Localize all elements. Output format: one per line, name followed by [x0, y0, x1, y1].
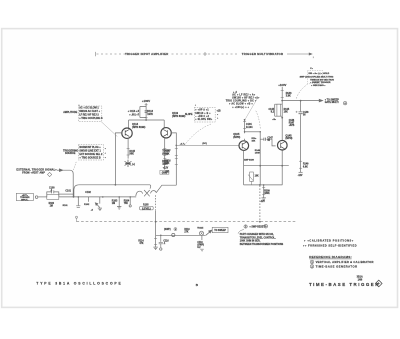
wire: down to input line: [63, 170, 73, 197]
svg-text:INPUT+: INPUT+: [21, 199, 29, 201]
wire: base line to Q105: [175, 145, 239, 147]
capacitor C100 bypass: [47, 190, 59, 197]
svg-text:100K OHM IN SER.: 100K OHM IN SER.: [240, 241, 261, 243]
svg-text:(NPN 8199): (NPN 8199): [132, 126, 145, 129]
svg-text:REFERENCE DIAGRAMS:: REFERENCE DIAGRAMS:: [309, 255, 352, 259]
component: star symbol under Q114: [125, 160, 132, 167]
svg-text:C147: C147: [267, 136, 273, 139]
wire: corner up to rail: [74, 185, 79, 197]
svg-text:(+): (+): [132, 164, 135, 166]
capacitor C115: [159, 235, 163, 247]
wire: Q119 right lead + right rail: [171, 133, 177, 185]
svg-text:(NPN): (NPN): [233, 136, 240, 139]
connector circle on rail: [172, 233, 175, 236]
switch table: triggering source: [78, 145, 106, 160]
svg-text:TRIGGER MULTIVIBRATOR: TRIGGER MULTIVIBRATOR: [242, 52, 283, 56]
transistor Q145: [278, 140, 288, 150]
wire: collector cross link: [245, 131, 261, 133]
wire: dashed drop to chassis: [259, 185, 261, 221]
svg-text:+ TRIG COUPLING S: + TRIG COUPLING S: [79, 117, 103, 120]
svg-text:-12V: -12V: [298, 175, 303, 177]
svg-text:+ +100(+) + +: + +100(+) + +: [232, 107, 249, 109]
svg-text:(SWP): (SWP): [164, 229, 171, 231]
svg-text:R114: R114: [138, 240, 144, 243]
svg-text:++ FURNISHED SELF-IDENTIFIED: ++ FURNISHED SELF-IDENTIFIED: [303, 244, 357, 247]
svg-text:TIME-BASE GENERATOR: TIME-BASE GENERATOR: [316, 265, 358, 269]
base network C147: [260, 139, 275, 146]
svg-text:10K: 10K: [165, 153, 170, 155]
svg-text:C148: C148: [303, 111, 309, 114]
svg-text:+ C113 +.5: + C113 +.5: [128, 111, 140, 113]
resistor R100 box: [47, 194, 59, 199]
node: arrow stub: [129, 197, 131, 205]
svg-text:+67B: +67B: [289, 125, 295, 127]
svg-text:R109: R109: [264, 190, 270, 192]
box: TO SWEEP: [212, 227, 228, 232]
svg-text:TRANSISTOR LEVEL CONTROL,: TRANSISTOR LEVEL CONTROL,: [240, 236, 276, 239]
svg-text:R104: R104: [124, 199, 130, 202]
wire: pointer to C104 node: [245, 98, 257, 119]
svg-text:+100V: +100V: [142, 99, 150, 103]
svg-text:75K: 75K: [124, 203, 129, 205]
svg-text:SOURCE: SOURCE: [65, 152, 76, 155]
wire: Q114 cathode drop: [127, 138, 129, 159]
wire: C101 upper parallel: [59, 193, 73, 195]
svg-text:+ GEN DIAG +: + GEN DIAG +: [311, 84, 326, 87]
svg-text:+ TRIG SOURCE B: + TRIG SOURCE B: [79, 157, 100, 160]
svg-text:TRIGGER INPUT AMPLIFIER: TRIGGER INPUT AMPLIFIER: [125, 52, 168, 56]
wire: header dash left: [97, 53, 127, 55]
node: header mid cross: [203, 52, 207, 56]
transistor Q114: [122, 128, 132, 138]
svg-text:TIME-BASE TRIGGER: TIME-BASE TRIGGER: [309, 282, 380, 287]
svg-text:(DC): (DC): [202, 143, 207, 145]
ground: under x155.6: [153, 235, 157, 249]
svg-text:56K: 56K: [129, 153, 134, 156]
wire: dashed coupling linkage: [256, 111, 260, 129]
svg-text:VERTICAL AMPLIFIER & CALIBRATO: VERTICAL AMPLIFIER & CALIBRATOR: [316, 260, 374, 264]
svg-text:10K: 10K: [252, 141, 256, 143]
svg-text:R149: R149: [303, 163, 309, 166]
node: diamond marker: [47, 172, 51, 176]
switch table: trigger coupling: [78, 104, 103, 121]
svg-text:+100V: +100V: [278, 83, 286, 87]
svg-text:R148: R148: [255, 149, 261, 152]
resistor R102 stub: [88, 197, 90, 202]
label: part-change note: [240, 233, 284, 246]
wire: pot right to rail: [156, 185, 176, 192]
wire: emitter rail: [79, 185, 151, 189]
wire: main vertical x260: [259, 132, 261, 185]
wire: pot wiper dashed down: [155, 195, 157, 211]
wire: chassis dashed: [77, 221, 297, 223]
svg-text:R-104: R-104: [246, 126, 253, 129]
svg-text:BETWEEN TRANSFORMER POSITIONS: BETWEEN TRANSFORMER POSITIONS: [240, 243, 284, 246]
node: chassis start hook: [76, 216, 78, 222]
node: +100V supply: [142, 99, 150, 120]
svg-text:10K: 10K: [284, 112, 289, 114]
svg-text:AMP 8199: AMP 8199: [244, 158, 255, 161]
node: circled 1: [310, 260, 314, 264]
wire: Q105 collector: [244, 120, 246, 141]
svg-text:AMPLITUDE: AMPLITUDE: [63, 111, 77, 114]
svg-text:+ +CALIBRATED POSITIONS+: + +CALIBRATED POSITIONS+: [304, 239, 354, 242]
thermistor RT105: [250, 172, 254, 181]
wire: emitter box left: [243, 166, 245, 185]
svg-text:SW105 + HF REJ +A+: SW105 + HF REJ +A+: [232, 96, 260, 99]
wire: header dash mid-left: [172, 53, 203, 55]
svg-text:C102: C102: [85, 192, 91, 194]
wire: input line: [59, 196, 136, 198]
transistor Q119: [161, 128, 171, 138]
svg-text:+ +UP A +1: + +UP A +1: [195, 109, 209, 112]
svg-text:R117: R117: [165, 151, 171, 153]
node: circled 2b: [310, 265, 314, 269]
svg-text:(LEVEL): (LEVEL): [142, 208, 151, 210]
svg-text:27K: 27K: [184, 231, 188, 233]
wire: Q119 cathode drop: [164, 138, 166, 170]
svg-text:AC + LF REJ + A+: AC + LF REJ + A+: [232, 94, 255, 97]
capacitor C101A stub: [76, 197, 80, 207]
wire: pointer to note: [296, 84, 307, 98]
wire: pointer to Q114: [102, 122, 118, 137]
wire: drop to B114: [128, 120, 130, 129]
ground under R103 node: [117, 197, 121, 209]
svg-text:R101: R101: [63, 205, 69, 207]
svg-text:R102: R102: [84, 204, 90, 206]
node dots on input line: [78, 196, 80, 198]
header section dividers: [96, 52, 314, 58]
svg-text:SLOPE: SLOPE: [185, 114, 193, 116]
svg-text:197K: 197K: [147, 113, 153, 116]
svg-text:TRIG COUPLING + DC +: TRIG COUPLING + DC +: [226, 100, 257, 102]
svg-text:SW + A+ (+) + HOLD: SW + A+ (+) + HOLD: [308, 72, 329, 75]
wire: wiper to bottom rail: [155, 211, 157, 235]
diode D100: [96, 197, 100, 208]
wire: Q114 left lead + left rail: [115, 133, 122, 185]
label: (300) boxed: [160, 170, 169, 174]
svg-text:GATE MULTI: GATE MULTI: [325, 101, 339, 104]
svg-text:100K: 100K: [255, 153, 261, 155]
svg-text:+ .001 +7: + .001 +7: [129, 114, 139, 116]
svg-text:SW110 + B +: SW110 + B +: [195, 113, 211, 115]
wire: output arrow to sweep gate: [282, 100, 321, 102]
wire: -12V tick: [299, 171, 303, 173]
svg-text:TD115: TD115: [197, 228, 204, 230]
svg-text:+12V: +12V: [163, 167, 169, 169]
svg-text:+ A: + A: [233, 91, 237, 94]
svg-text:SWP (DECOUPLED) MULTI TRIG: SWP (DECOUPLED) MULTI TRIG: [300, 77, 334, 79]
capacitor C113 bypass: [140, 107, 148, 118]
svg-text:+ SWP RESET: + SWP RESET: [249, 227, 265, 229]
wire: bottom rail: [156, 234, 206, 236]
svg-text:10K: 10K: [255, 175, 259, 177]
resistor R109 drop: [263, 185, 265, 198]
wire: header left tick: [95, 52, 97, 56]
switch table: slope: [194, 105, 221, 122]
component: TD115: [199, 231, 203, 235]
node: circled plus: [264, 224, 268, 228]
wire: collector rail y120: [129, 119, 165, 121]
transistor Q105: [239, 141, 249, 151]
svg-text:3.9K: 3.9K: [286, 95, 291, 98]
wire: dashed pointer from table to input wire: [73, 162, 76, 171]
node: circled 3: [244, 225, 247, 229]
node: diamond mark: [375, 280, 382, 287]
wire: header solid right with arrow: [287, 53, 311, 55]
svg-text:+ AC SLOW + +B +: + AC SLOW + +B +: [229, 103, 253, 106]
svg-text:(NPN 8199): (NPN 8199): [172, 115, 185, 118]
wire: header dash mid-right: [208, 53, 238, 55]
wire: Q105 emitter drop: [243, 150, 245, 165]
wire: Q145 emitter drop: [281, 150, 283, 185]
svg-text:47K: 47K: [139, 242, 143, 245]
svg-text:1M: 1M: [50, 205, 53, 207]
component lead ticks: [127, 91, 303, 245]
wire: drop to B135: [163, 120, 165, 128]
svg-text:TYPE 3B1A OSCILLOSCOPE: TYPE 3B1A OSCILLOSCOPE: [36, 282, 122, 286]
wire: slope linkage dashed: [185, 124, 212, 145]
capacitor C148 line: [300, 101, 302, 173]
svg-text:6.8K: 6.8K: [303, 166, 308, 168]
svg-text:PART CHANGED WITH SN 101,: PART CHANGED WITH SN 101,: [240, 233, 274, 236]
wire: arrow to sweep box: [206, 231, 211, 235]
svg-text:18K: 18K: [165, 163, 170, 165]
svg-text:C101: C101: [65, 191, 71, 193]
svg-text:1M: 1M: [112, 203, 115, 205]
svg-text:+ SWEEP TRIGGER: + SWEEP TRIGGER: [310, 82, 331, 84]
wire: rail y165.7: [244, 165, 289, 167]
svg-text:R145: R145: [284, 108, 290, 111]
node: circled 2 ref: [343, 101, 347, 105]
svg-text:C145: C145: [268, 108, 274, 111]
svg-text:(NPN): (NPN): [285, 137, 292, 140]
svg-text:FROM +VERT AMP: FROM +VERT AMP: [22, 172, 45, 175]
svg-text:− +DN C +2: − +DN C +2: [195, 116, 209, 118]
connector J100: [16, 193, 33, 200]
resistor R145 box + C145 bypass: [277, 104, 281, 116]
svg-text:(W): (W): [165, 172, 169, 174]
svg-text:+1B: +1B: [217, 110, 222, 112]
wire: jack to RC: [38, 196, 47, 198]
wire: ext trig arrow: [57, 169, 61, 171]
svg-text:R116: R116: [165, 160, 171, 162]
wire: rail y184.9: [244, 184, 283, 186]
svg-text:-12V: -12V: [260, 201, 265, 203]
potentiometer R105: [136, 191, 143, 196]
stub under TD115: [201, 236, 203, 240]
ground: R109 arrow: [262, 198, 266, 201]
svg-text:EXTERNAL TRIGGER SIGNAL+: EXTERNAL TRIGGER SIGNAL+: [16, 169, 57, 172]
svg-text:TO SWEEP: TO SWEEP: [214, 230, 226, 232]
svg-text:+4.7+: +4.7+: [180, 142, 186, 145]
wire: note pointer arc: [238, 230, 244, 234]
svg-text:+ SLOPE SW+: + SLOPE SW+: [195, 119, 213, 121]
